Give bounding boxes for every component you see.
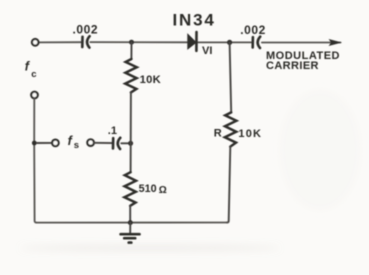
svg-text:.002: .002: [73, 23, 99, 37]
svg-text:s: s: [74, 140, 79, 151]
svg-text:CARRIER: CARRIER: [266, 60, 319, 72]
svg-text:Ω: Ω: [159, 185, 167, 196]
svg-text:IN34: IN34: [173, 11, 216, 30]
svg-text:.002: .002: [240, 23, 266, 37]
svg-text:VI: VI: [202, 45, 212, 57]
svg-text:R: R: [214, 128, 222, 140]
svg-text:10K: 10K: [238, 128, 262, 140]
svg-text:.1: .1: [108, 125, 117, 137]
svg-text:510: 510: [139, 183, 157, 195]
svg-text:c: c: [31, 69, 36, 80]
svg-text:10K: 10K: [140, 74, 161, 86]
